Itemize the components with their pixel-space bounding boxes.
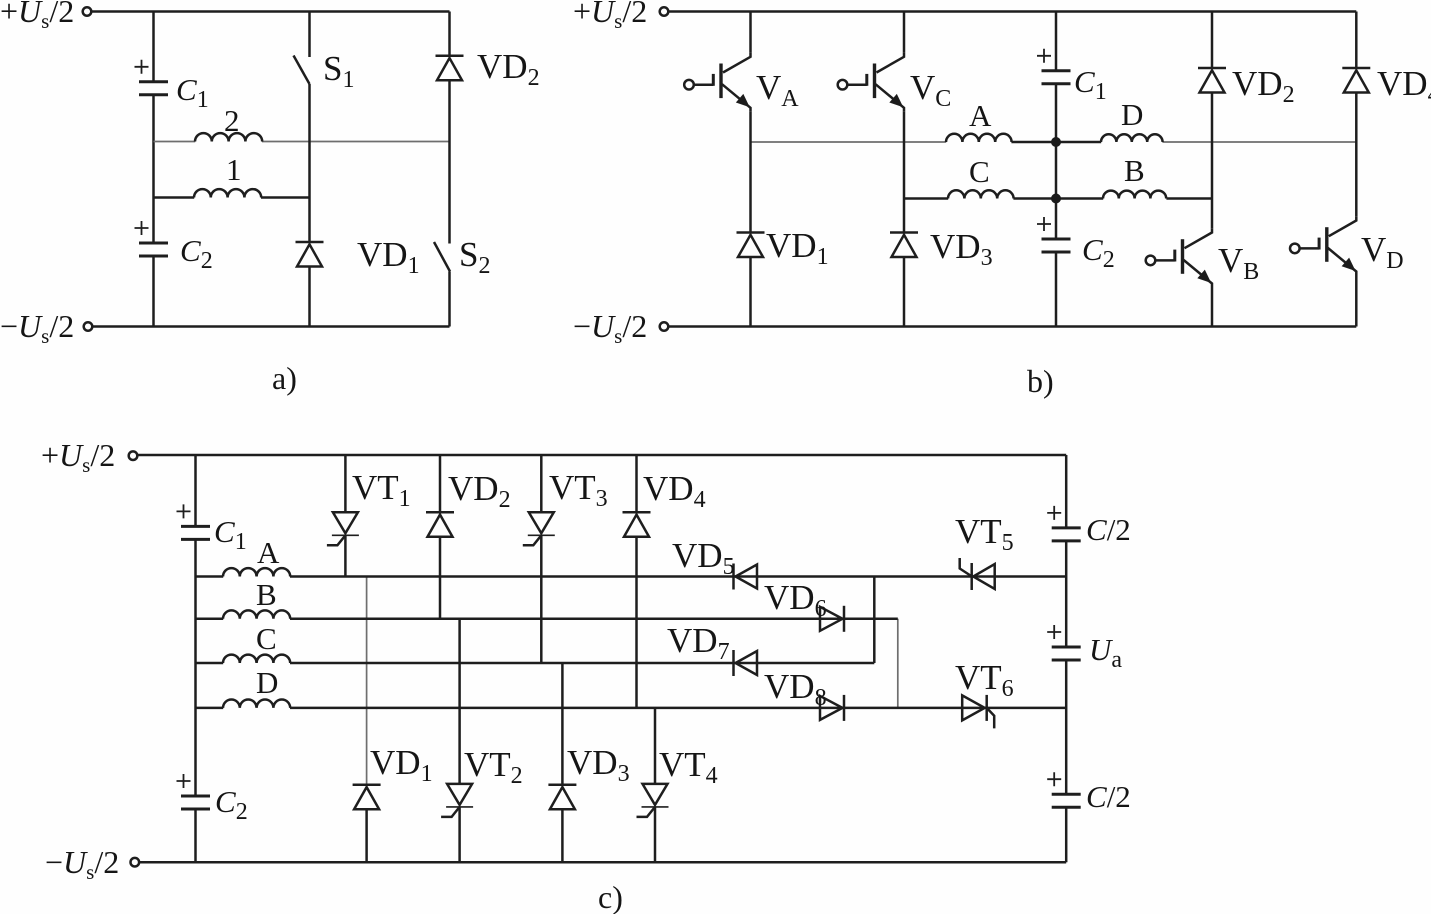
wire bottom rail c (139, 861, 1066, 864)
inductor C (c) (223, 655, 290, 663)
wire riser D to VT4 (c) (654, 708, 657, 784)
wire top rail b (669, 10, 1357, 13)
wire VD2 to VB (b) (1211, 93, 1214, 229)
svg-text:+Us/2: +Us/2 (573, 0, 647, 33)
wire VC emitter to VD3 (903, 112, 906, 233)
diode VD2 (a) (436, 56, 464, 80)
inductor A (c) (223, 568, 290, 576)
node -Us/2 (b) (573, 308, 668, 348)
thyristor VT2 (441, 784, 473, 817)
wire VB emitter (b) (1211, 288, 1214, 327)
diode VD6 (c) (820, 606, 844, 632)
wire VT3 to phase C (540, 535, 543, 663)
svg-text:+Us/2: +Us/2 (0, 0, 74, 33)
wire VD4 branch (c) (635, 455, 638, 512)
svg-text:c): c) (598, 879, 623, 914)
capacitor C/2 top (c) (1047, 506, 1081, 541)
wire phase B (c) (196, 618, 898, 621)
svg-text:C/2: C/2 (1086, 779, 1131, 814)
junction dot A/D (b) (1051, 137, 1061, 147)
diode VD1 (c) (353, 785, 381, 810)
node -Us/2 (a) (0, 308, 92, 348)
inductor 2 (a) (195, 133, 262, 141)
thyristor VT1 (327, 512, 359, 545)
wire VD2 branch (c) (439, 455, 442, 512)
diode VD1 (b) (737, 233, 765, 258)
wire left branch a (152, 12, 155, 327)
wire VD1 to bottom rail (c) (365, 809, 368, 862)
svg-text:1: 1 (226, 152, 242, 187)
wire VD2 branch top (b) (1211, 12, 1214, 69)
wire phase A/D (b) (751, 141, 1357, 143)
capacitor C1 (b) (1037, 49, 1071, 84)
thyristor VT5 (960, 558, 995, 590)
svg-text:2: 2 (224, 103, 240, 138)
wire VT2 to bottom rail (c) (458, 807, 461, 862)
capacitor C2 (c) (177, 774, 211, 809)
node +Us/2 (a) (0, 0, 91, 33)
wire bottom rail a (93, 325, 450, 328)
node -Us/2 (c) (45, 844, 139, 884)
inductor B (c) (223, 610, 290, 618)
wire below VD1 (a) (308, 267, 311, 327)
thyristor VT6 (962, 695, 994, 729)
transistor VB (1146, 228, 1212, 287)
inductor 1 (a) (194, 189, 261, 197)
wire VT3 branch (c) (540, 455, 543, 512)
wire link B to D (c) (897, 619, 899, 708)
inductor D (c) (223, 700, 290, 708)
wire capacitor branch (b) (1055, 12, 1058, 327)
capacitor C2 (b) (1037, 217, 1071, 252)
svg-text:D: D (1121, 97, 1143, 132)
junction dot C/B (b) (1051, 194, 1061, 204)
wire VD emitter (b) (1355, 276, 1358, 327)
transistor VA (684, 53, 750, 112)
capacitor C1 (a) (135, 60, 169, 95)
wire VD4 branch top (b) (1355, 12, 1358, 69)
thyristor VT3 (523, 512, 555, 545)
wire middle 2 (a) (154, 141, 450, 143)
svg-text:D: D (256, 665, 278, 700)
wire right branch top (a) (448, 12, 451, 56)
wire below VD3 (b) (903, 257, 906, 327)
wire top rail c (138, 454, 1067, 457)
svg-text:−Us/2: −Us/2 (0, 308, 74, 348)
wire VA emitter to VD1 (749, 112, 752, 233)
diode VD4 (b) (1342, 68, 1370, 93)
svg-text:VD4: VD4 (1377, 64, 1431, 108)
switch S1 (294, 12, 310, 243)
svg-text:C: C (969, 154, 990, 189)
node +Us/2 (b) (573, 0, 668, 33)
diode VD1 (a) (296, 242, 324, 267)
inductor D (b) (1101, 134, 1163, 142)
wire VD4 to VD (b) (1355, 93, 1358, 217)
diode VD2 (b) (1198, 68, 1226, 93)
wire VA collector stub (749, 12, 752, 53)
node +Us/2 (c) (41, 437, 137, 477)
wire VT1 branch (c) (344, 455, 347, 512)
svg-text:C: C (256, 621, 277, 656)
wire phase C (c) (196, 662, 875, 665)
capacitor Ua (c) (1047, 625, 1081, 660)
diode VD5 (c) (734, 564, 758, 590)
diode VD3 (b) (890, 233, 918, 258)
svg-text:a): a) (272, 360, 297, 396)
wire VT4 to bottom rail (c) (654, 807, 657, 862)
capacitor C/2 bottom (c) (1047, 772, 1081, 807)
inductor C (b) (948, 190, 1014, 198)
switch S2 (434, 242, 450, 327)
diode VD4 (c) (623, 512, 651, 537)
wire middle 1 (a) (154, 196, 310, 199)
svg-text:C/2: C/2 (1086, 512, 1131, 547)
wire left branch c (194, 455, 197, 862)
diode VD8 (c) (820, 695, 844, 721)
wire VC collector stub (903, 12, 906, 53)
inductor A (b) (946, 134, 1012, 142)
diode VD7 (c) (734, 650, 758, 676)
wire VD2 to phase B (439, 537, 442, 619)
svg-text:B: B (1124, 153, 1145, 188)
wire link A to C (c) (873, 577, 876, 664)
wire top rail a (92, 10, 450, 13)
svg-text:A: A (257, 535, 280, 570)
wire riser C to VD3 (c) (561, 663, 564, 785)
wire right branch c (1065, 455, 1068, 862)
wire below VD1 (b) (749, 257, 752, 327)
wire right branch middle (a) (448, 80, 451, 243)
wire bottom rail b (669, 325, 1357, 328)
svg-text:−Us/2: −Us/2 (45, 844, 119, 884)
transistor VC (838, 53, 904, 112)
transistor VD (1290, 216, 1356, 275)
thyristor VT4 (637, 784, 669, 817)
svg-text:+Us/2: +Us/2 (41, 437, 115, 477)
wire phase D (c) (196, 707, 1067, 710)
svg-text:−Us/2: −Us/2 (573, 308, 647, 348)
wire phase C/B (b) (904, 197, 1212, 200)
inductor B (b) (1103, 191, 1166, 199)
svg-text:B: B (256, 577, 277, 612)
svg-text:A: A (969, 98, 992, 133)
capacitor C1 (c) (177, 504, 211, 539)
diode VD2 (c) (426, 512, 454, 537)
capacitor C2 (a) (135, 221, 169, 256)
wire VD3 to bottom rail (c) (561, 809, 564, 862)
svg-text:b): b) (1027, 363, 1054, 399)
wire VT1 to phase A (344, 535, 347, 576)
wire VD4 to phase D (635, 537, 638, 708)
wire riser A to VD1 (c) (366, 577, 368, 785)
wire phase A (c) (196, 575, 1067, 578)
diode VD3 (c) (548, 785, 576, 810)
wire riser B to VT2 (c) (458, 619, 461, 784)
